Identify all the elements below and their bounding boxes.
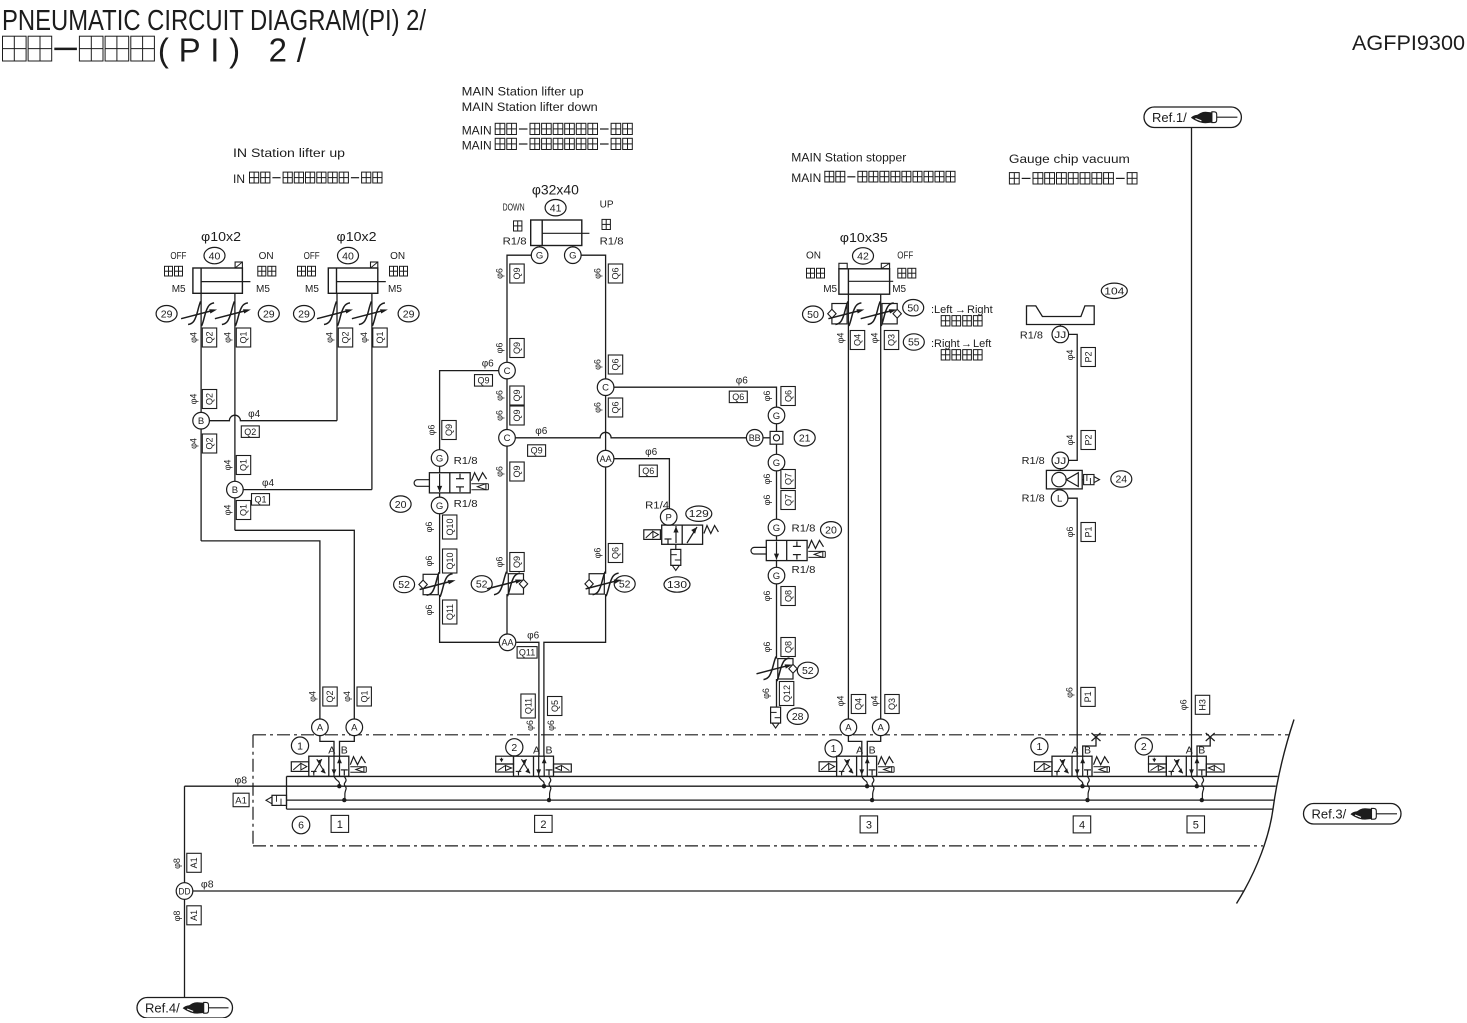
svg-text:φ4: φ4 xyxy=(223,332,233,343)
node A valve1-A xyxy=(312,719,329,736)
valve1 B feed xyxy=(340,736,355,757)
svg-text:A: A xyxy=(878,723,885,734)
svg-text:29: 29 xyxy=(161,308,173,320)
node DD xyxy=(176,883,193,900)
svg-text:IN Station lifter up: IN Station lifter up xyxy=(233,146,345,160)
svg-text:φ6: φ6 xyxy=(482,359,494,370)
svg-text:Right: Right xyxy=(967,304,993,316)
callout v2 circle 2 xyxy=(506,739,523,756)
cylinder 40 (IN lifter #2) phi10x2 xyxy=(328,268,378,293)
svg-text:Q7: Q7 xyxy=(783,494,793,506)
callout 50 left xyxy=(803,306,824,322)
svg-text:φ6: φ6 xyxy=(1178,699,1188,710)
svg-text::Right: :Right xyxy=(931,338,960,350)
wire to muffler 28 xyxy=(776,679,778,707)
manifold block bottom line xyxy=(287,808,1273,810)
svg-text:29: 29 xyxy=(403,308,415,320)
node A valve3-B xyxy=(872,719,889,736)
svg-text:φ4: φ4 xyxy=(1065,350,1075,361)
callout 29 x4 xyxy=(156,306,177,322)
svg-text:φ4: φ4 xyxy=(1065,435,1075,446)
svg-text:φ4: φ4 xyxy=(870,696,880,707)
manifold block left edge xyxy=(286,776,288,809)
wire cyl1 ON port down (Q1) xyxy=(234,293,236,481)
svg-text:(PI) 2/: (PI) 2/ xyxy=(158,32,307,69)
svg-text:R1/8: R1/8 xyxy=(454,455,478,467)
svg-text:A: A xyxy=(351,723,358,734)
svg-text:B: B xyxy=(232,485,238,496)
manifold dash-dot enclosure bottom xyxy=(253,845,1263,847)
svg-text:G: G xyxy=(436,501,443,512)
speed controller 50 right xyxy=(882,304,897,324)
speed controller 52 on W5 xyxy=(508,574,523,594)
callout v4 circle 1 xyxy=(1031,738,1048,755)
callout v3 circle 1 xyxy=(825,740,842,757)
valve5 B plug xyxy=(1197,738,1210,756)
svg-text:Q2: Q2 xyxy=(205,393,215,405)
wire below B2 xyxy=(234,498,236,530)
svg-text:AA: AA xyxy=(502,638,515,649)
svg-text:129: 129 xyxy=(689,509,710,520)
svg-text:Q2: Q2 xyxy=(244,427,256,437)
callout 24 xyxy=(1111,471,1132,487)
svg-text:φ6: φ6 xyxy=(495,410,505,421)
svg-text:JJ: JJ xyxy=(1054,330,1066,341)
node P xyxy=(660,509,677,526)
svg-text:52: 52 xyxy=(476,579,488,591)
throttle 29 on Q1 wire #2 xyxy=(359,301,372,324)
svg-text:52: 52 xyxy=(398,579,410,591)
svg-text:φ6: φ6 xyxy=(762,474,772,485)
callout 21 xyxy=(794,430,815,446)
svg-text:Q6: Q6 xyxy=(642,466,654,476)
svg-text:OFF: OFF xyxy=(170,251,186,262)
svg-text:Q6: Q6 xyxy=(611,358,621,370)
svg-text:MAIN Station stopper: MAIN Station stopper xyxy=(791,151,906,165)
phi8 feed corner xyxy=(184,786,186,883)
svg-text:A: A xyxy=(1186,745,1193,757)
svg-text:C: C xyxy=(602,383,609,394)
svg-text:G: G xyxy=(569,251,576,262)
svg-text:Ref.3/: Ref.3/ xyxy=(1312,806,1347,821)
svg-text:BB: BB xyxy=(749,433,761,444)
callout 40 #1 xyxy=(204,247,225,263)
svg-text:ON: ON xyxy=(390,251,405,262)
wire W1 corner to valve1 A circle xyxy=(201,541,320,719)
svg-text:R1/8: R1/8 xyxy=(454,498,478,510)
svg-text:Q2: Q2 xyxy=(205,437,215,449)
svg-text:Q1: Q1 xyxy=(359,690,369,702)
branch C3 to W8 corner xyxy=(614,387,777,407)
svg-text:φ6: φ6 xyxy=(427,425,437,436)
branch C2 to BB with bridge over W7 xyxy=(515,432,746,438)
svg-text:DOWN: DOWN xyxy=(503,202,525,213)
svg-text:Q9: Q9 xyxy=(512,409,522,421)
svg-text:G: G xyxy=(773,571,780,582)
speed controller 52 on W6 xyxy=(423,574,438,594)
svg-text:R1/8: R1/8 xyxy=(1022,493,1045,505)
svg-text:Q9: Q9 xyxy=(512,556,522,568)
svg-text:M5: M5 xyxy=(256,284,270,295)
svg-text:Gauge chip vacuum: Gauge chip vacuum xyxy=(1009,152,1130,166)
svg-text:φ6: φ6 xyxy=(495,390,505,401)
svg-text:φ6: φ6 xyxy=(593,402,603,413)
svg-text:Q7: Q7 xyxy=(783,473,793,485)
wire G-left to W5 down xyxy=(507,255,531,362)
callout 130 xyxy=(664,577,690,592)
svg-text:φ6: φ6 xyxy=(593,268,603,279)
svg-text:φ6: φ6 xyxy=(762,591,772,602)
svg-text:Q1: Q1 xyxy=(254,495,266,505)
wire stopper ON down xyxy=(847,294,849,719)
svg-text:P1: P1 xyxy=(1083,526,1093,537)
svg-text:R1/8: R1/8 xyxy=(503,236,527,248)
svg-text:Q9: Q9 xyxy=(477,376,489,386)
callout 104 xyxy=(1101,283,1127,298)
svg-text:B: B xyxy=(341,745,348,757)
Ref.4 callout xyxy=(137,998,233,1019)
svg-text:A: A xyxy=(533,745,540,757)
labels Q5/phi6 on twin right xyxy=(548,697,562,716)
svg-text:R1/4: R1/4 xyxy=(645,500,669,512)
callout 52 W6 xyxy=(394,576,415,592)
node G W8-4 xyxy=(768,567,785,584)
svg-text:φ4: φ4 xyxy=(262,478,274,489)
svg-text:AA: AA xyxy=(600,454,613,465)
svg-text:Q9: Q9 xyxy=(531,446,543,456)
cylinder 42 stopper phi10x35 xyxy=(839,269,890,294)
wire cyl2 ON port down xyxy=(371,293,373,489)
svg-text:φ6: φ6 xyxy=(762,391,772,402)
svg-text:Q9: Q9 xyxy=(512,389,522,401)
svg-text:φ6: φ6 xyxy=(495,343,505,354)
node JJ2 xyxy=(1052,452,1069,469)
svg-text:P: P xyxy=(666,512,672,523)
svg-text:104: 104 xyxy=(1104,286,1125,297)
break curve xyxy=(1237,720,1295,904)
svg-text:Q1: Q1 xyxy=(239,331,249,343)
svg-text:φ4: φ4 xyxy=(189,438,199,449)
svg-text:6: 6 xyxy=(298,820,304,832)
svg-text:φ6: φ6 xyxy=(495,466,505,477)
svg-text:φ32x40: φ32x40 xyxy=(532,183,579,198)
svg-text:50: 50 xyxy=(807,309,819,321)
DD horizontal phi8 line xyxy=(193,890,1245,892)
svg-text:MAIN Station lifter down: MAIN Station lifter down xyxy=(462,100,598,114)
node B1 xyxy=(200,411,202,413)
callout v1 circle 1 xyxy=(291,737,308,754)
callout 52 W7 xyxy=(614,576,635,592)
callout 55 xyxy=(903,334,924,350)
svg-text:φ8: φ8 xyxy=(172,858,182,869)
callout 40 #2 xyxy=(338,247,359,263)
svg-text:OFF: OFF xyxy=(304,251,320,262)
node B2 xyxy=(227,481,244,498)
valve3 A feed xyxy=(848,736,861,757)
callout v5 circle 2 xyxy=(1135,738,1152,755)
svg-text:52: 52 xyxy=(802,665,814,677)
svg-text:M5: M5 xyxy=(305,284,319,295)
node BB xyxy=(746,430,763,447)
title line 2 (Japanese) xyxy=(3,36,27,61)
svg-text:φ6: φ6 xyxy=(525,720,535,731)
svg-text:Q1: Q1 xyxy=(375,331,385,343)
svg-text:A1: A1 xyxy=(189,910,199,921)
wire Ref.1 down to valve5 xyxy=(1191,128,1193,757)
node A valve3-A xyxy=(840,719,857,736)
callout 42 xyxy=(853,248,874,264)
labels Q11/phi6 on twin left xyxy=(521,694,535,718)
svg-text:φ6: φ6 xyxy=(593,548,603,559)
svg-text:Q6: Q6 xyxy=(611,267,621,279)
svg-text:φ4: φ4 xyxy=(870,333,880,344)
svg-text:1: 1 xyxy=(297,740,303,752)
svg-text::Left: :Left xyxy=(931,304,952,316)
svg-text:φ6: φ6 xyxy=(762,495,772,506)
callout 41 xyxy=(545,200,566,216)
svg-text:φ6: φ6 xyxy=(424,556,434,567)
wire W6 to AA xyxy=(440,595,500,643)
svg-text:1: 1 xyxy=(831,743,837,755)
svg-text:Q10: Q10 xyxy=(445,552,455,569)
svg-text:H3: H3 xyxy=(1198,699,1208,711)
svg-text:Q4: Q4 xyxy=(854,698,864,710)
svg-text:A: A xyxy=(845,723,852,734)
wire below C2 xyxy=(506,446,508,574)
callout 20 left xyxy=(390,496,411,512)
wire L down to valve4 xyxy=(1068,498,1077,756)
node G lifter right xyxy=(565,247,582,264)
svg-text:2: 2 xyxy=(511,742,517,754)
spring of 129 xyxy=(704,526,719,534)
svg-text:Q3: Q3 xyxy=(887,334,897,346)
node L xyxy=(1051,490,1068,507)
node G below hand valve 1 xyxy=(431,497,448,514)
svg-text:φ6: φ6 xyxy=(495,268,505,279)
svg-text:Q10: Q10 xyxy=(445,518,455,535)
svg-text:Q3: Q3 xyxy=(887,698,897,710)
svg-text:Q5: Q5 xyxy=(550,700,560,712)
Ref.3 callout xyxy=(1304,804,1402,825)
svg-text:Q6: Q6 xyxy=(732,392,744,402)
wire W5 to AA xyxy=(506,594,508,634)
station boxes 1-5 xyxy=(331,815,349,832)
vacuum generator 24 xyxy=(1059,469,1061,471)
branch C1 to W6 xyxy=(440,371,499,450)
svg-text:OFF: OFF xyxy=(897,251,913,262)
throttle 29 on Q2 wire #1 xyxy=(188,301,201,324)
Ref.1 callout xyxy=(1144,107,1241,128)
svg-text:40: 40 xyxy=(342,250,354,262)
hand valve 20 (gauge blow) xyxy=(766,540,807,560)
svg-text:R1/8: R1/8 xyxy=(1022,455,1045,467)
svg-text:Q6: Q6 xyxy=(611,547,621,559)
svg-text:Q2: Q2 xyxy=(341,331,351,343)
svg-text:φ4: φ4 xyxy=(325,332,335,343)
svg-text:φ8: φ8 xyxy=(235,774,248,786)
svg-text:Q6: Q6 xyxy=(611,401,621,413)
svg-text:φ4: φ4 xyxy=(359,332,369,343)
svg-text:ON: ON xyxy=(806,251,821,262)
svg-text:20: 20 xyxy=(395,499,407,511)
svg-text:P2: P2 xyxy=(1083,351,1093,362)
svg-text:φ6: φ6 xyxy=(424,522,434,533)
node C1 xyxy=(499,362,516,379)
solenoid valve station4 (5/2 spring return) xyxy=(1052,756,1092,776)
svg-text:Q8: Q8 xyxy=(783,641,793,653)
manifold dash-dot enclosure top xyxy=(253,734,1289,736)
callout 129 xyxy=(686,506,712,521)
svg-text:AGFPI9300: AGFPI9300 xyxy=(1352,31,1465,55)
label A1 feed box xyxy=(233,793,249,807)
wire stopper OFF down xyxy=(880,294,882,719)
svg-text:φ6: φ6 xyxy=(645,447,657,458)
node G W8-1 xyxy=(768,407,785,424)
node G W8-3 xyxy=(768,519,785,536)
callout 50 right xyxy=(903,300,924,316)
svg-text:MAIN: MAIN xyxy=(462,124,492,138)
svg-text:A1: A1 xyxy=(189,857,199,868)
svg-text:C: C xyxy=(504,433,511,444)
wire W8 low xyxy=(776,584,778,659)
svg-text:MAIN: MAIN xyxy=(462,139,492,153)
node C3 xyxy=(597,379,614,396)
svg-text:φ4: φ4 xyxy=(836,333,846,344)
svg-text:B: B xyxy=(869,745,876,757)
wire W2 corner to valve1 B circle xyxy=(235,530,354,719)
throttle 29 on Q1 wire #1 xyxy=(222,301,235,324)
node JJ1 xyxy=(1059,325,1061,327)
svg-text:DD: DD xyxy=(179,886,191,897)
wire C3 to AA2 xyxy=(605,396,607,451)
svg-text:φ6: φ6 xyxy=(424,605,434,616)
node AA2 xyxy=(597,450,614,467)
wire W8 down xyxy=(776,471,778,519)
svg-text:Q11: Q11 xyxy=(519,648,535,658)
wire G-right to W7 down xyxy=(581,255,606,379)
svg-text:1: 1 xyxy=(337,819,343,831)
node AA xyxy=(499,634,516,651)
hand valve 20 (lifter select) xyxy=(429,473,470,493)
svg-text:A1: A1 xyxy=(235,795,247,806)
svg-text:φ4: φ4 xyxy=(189,332,199,343)
solenoid valve station3 (5/2 spring return) xyxy=(837,756,877,776)
svg-text:Q9: Q9 xyxy=(444,424,454,436)
wire AA to twin A-leg xyxy=(516,642,539,756)
svg-text:IN: IN xyxy=(233,172,245,186)
wire below B1 xyxy=(200,429,202,541)
svg-text:φ4: φ4 xyxy=(342,691,352,702)
wire DD down to Ref.4 xyxy=(184,899,186,997)
svg-text:Q11: Q11 xyxy=(523,698,533,714)
svg-text:ON: ON xyxy=(259,251,274,262)
callout 52 W5 xyxy=(471,576,492,592)
svg-text:φ4: φ4 xyxy=(836,696,846,707)
svg-text:55: 55 xyxy=(908,337,920,349)
svg-text:φ6: φ6 xyxy=(1064,687,1074,698)
svg-text:20: 20 xyxy=(825,525,837,537)
svg-text:Q4: Q4 xyxy=(853,334,863,346)
svg-text:Q1: Q1 xyxy=(239,504,249,516)
solenoid of 129 xyxy=(644,530,661,540)
node G above hand valve 1 xyxy=(431,450,448,467)
svg-text:φ6: φ6 xyxy=(736,376,748,387)
svg-text:G: G xyxy=(773,411,780,422)
svg-text:29: 29 xyxy=(298,308,310,320)
svg-text:R1/8: R1/8 xyxy=(792,523,816,535)
svg-text:42: 42 xyxy=(857,251,869,263)
node A valve1-B xyxy=(346,719,363,736)
svg-text:A: A xyxy=(1072,745,1079,757)
svg-text:Left: Left xyxy=(973,338,991,350)
callout 28 xyxy=(787,708,808,724)
svg-text:Q9: Q9 xyxy=(512,267,522,279)
solenoid valve station5 (5/2 double solenoid) xyxy=(1166,756,1206,776)
svg-text:G: G xyxy=(436,453,443,464)
svg-text:φ6: φ6 xyxy=(527,631,539,642)
svg-text:52: 52 xyxy=(619,579,631,591)
quick coupler square 21 xyxy=(770,431,783,444)
svg-text:29: 29 xyxy=(263,308,275,320)
wire JJ1 to JJ2 xyxy=(1069,334,1078,460)
solenoid valve station2 (5/2 double solenoid) xyxy=(514,756,554,776)
branch AA2 to valve129 xyxy=(614,459,670,509)
svg-text:Q6: Q6 xyxy=(783,390,793,402)
svg-text:41: 41 xyxy=(550,202,562,214)
svg-text:B: B xyxy=(546,745,553,757)
speed controller 52 on W8 xyxy=(778,659,793,679)
svg-text:Q2: Q2 xyxy=(205,331,215,343)
svg-text:Q1: Q1 xyxy=(239,459,249,471)
svg-text:2: 2 xyxy=(540,819,546,831)
svg-text:1: 1 xyxy=(1036,741,1042,753)
valve3 B feed xyxy=(867,736,880,757)
svg-text:MAIN Station lifter up: MAIN Station lifter up xyxy=(462,85,584,99)
svg-text:φ10x2: φ10x2 xyxy=(201,229,241,244)
callout 52 W8 xyxy=(797,662,818,678)
svg-text:G: G xyxy=(536,251,543,262)
svg-text:A: A xyxy=(317,723,324,734)
svg-text:5: 5 xyxy=(1193,819,1199,831)
svg-text:R1/8: R1/8 xyxy=(1020,330,1043,342)
svg-text:φ4: φ4 xyxy=(308,691,318,702)
svg-text:→: → xyxy=(955,304,966,316)
svg-text:JJ: JJ xyxy=(1054,456,1066,467)
svg-text:40: 40 xyxy=(209,250,221,262)
manifold left muffler xyxy=(272,795,287,805)
cylinder 40 (IN lifter #1) phi10x2 xyxy=(193,268,243,293)
svg-text:φ4: φ4 xyxy=(189,394,199,405)
svg-text:Q8: Q8 xyxy=(783,590,793,602)
svg-text:Q9: Q9 xyxy=(512,342,522,354)
svg-text:M5: M5 xyxy=(388,284,402,295)
svg-text:2: 2 xyxy=(1141,741,1147,753)
speed controller 50 left xyxy=(832,304,847,324)
node G W8-2 xyxy=(768,454,785,471)
wire C1-C2 xyxy=(506,379,508,430)
wire B2 to cyl2 ON xyxy=(243,489,372,491)
svg-text:M5: M5 xyxy=(823,284,837,295)
manifold block top line xyxy=(287,775,1278,777)
svg-text:Q11: Q11 xyxy=(445,604,455,620)
svg-text:50: 50 xyxy=(907,302,919,314)
svg-text:φ10x35: φ10x35 xyxy=(840,230,888,245)
svg-text:L: L xyxy=(1057,494,1062,505)
svg-text:φ8: φ8 xyxy=(172,911,182,922)
svg-text:P2: P2 xyxy=(1083,434,1093,445)
callout 6 xyxy=(292,816,310,834)
valve 129 (3/2 solenoid) xyxy=(662,525,703,544)
